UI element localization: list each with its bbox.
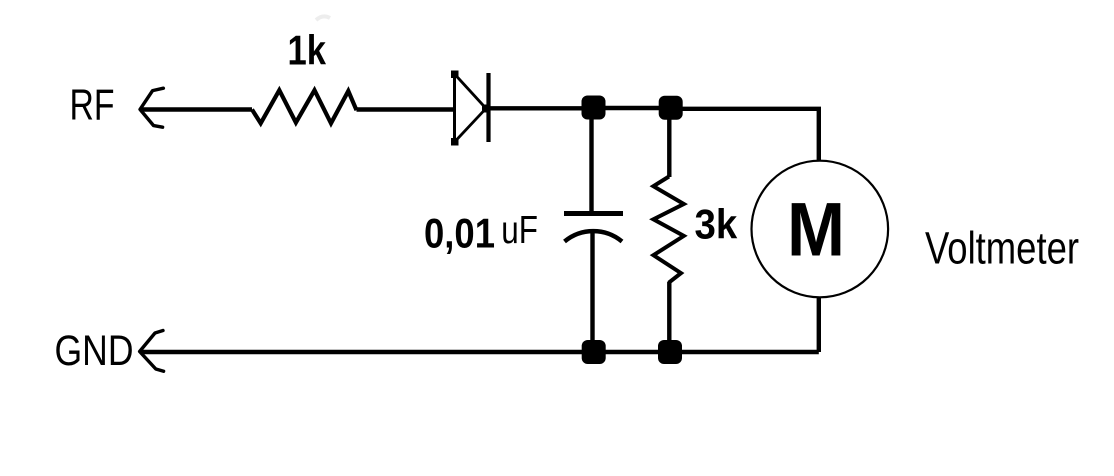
junction dot A (top, capacitor) [582,96,606,120]
wire RF lead [140,107,252,111]
wire capacitor bottom lead [590,231,594,353]
capacitor C 0.01uF top plate [564,211,623,216]
svg-text:GND: GND [55,327,134,375]
wire GND rail [140,350,819,354]
node GND label [55,327,134,375]
wire junction A to junction B [593,106,671,110]
value label 1k [288,26,327,73]
junction dot B (top, 3k) [659,96,683,120]
junction dot D (bottom, 3k) [658,340,682,364]
wire diode to junction A [489,106,594,110]
wire 3k top lead [667,108,671,177]
wire 3k bottom lead [667,282,671,352]
GND terminal arrow [140,331,164,372]
svg-text:0,01: 0,01 [424,210,495,257]
meter M1 voltmeter circle [752,161,889,298]
svg-text:1k: 1k [288,26,327,73]
meter label M [787,187,845,272]
value label 0,01 [424,210,495,257]
svg-text:3k: 3k [695,200,738,247]
faint smudge artifact [316,16,330,20]
wire resistor to diode [357,107,455,111]
resistor R 1k (zigzag) [252,90,357,123]
RF terminal arrow [140,88,163,127]
wire junction B to voltmeter top corner [671,109,819,162]
capacitor C 0.01uF bottom curved plate [565,231,623,241]
junction dot C (bottom, capacitor) [582,340,606,364]
resistor R 3k (vertical zigzag) [653,177,683,283]
label Voltmeter [925,223,1079,274]
svg-text:Voltmeter: Voltmeter [925,223,1079,274]
svg-text:RF: RF [70,81,115,130]
wire capacitor top lead [589,108,593,212]
diode D1 [451,71,490,146]
value label uF [501,209,538,252]
value label 3k [695,200,738,247]
svg-text:uF: uF [501,209,538,252]
svg-text:M: M [787,187,845,272]
node RF label [70,81,115,130]
wire voltmeter bottom lead [817,297,821,352]
